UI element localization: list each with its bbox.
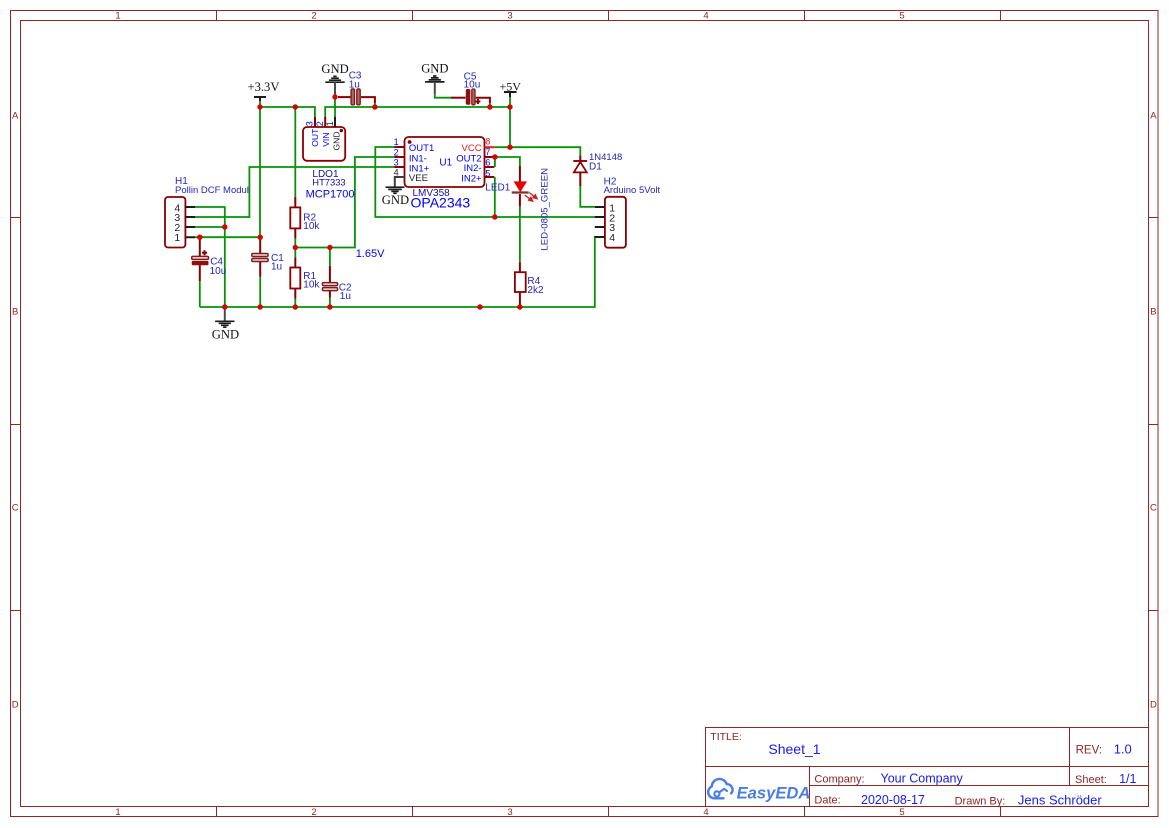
svg-text:2k2: 2k2 bbox=[527, 285, 544, 296]
svg-text:4: 4 bbox=[609, 232, 615, 244]
capacitor C4 (polarized) bbox=[192, 237, 209, 281]
ground symbol GND4 bottom bbox=[212, 307, 239, 342]
connector H2 body bbox=[605, 197, 626, 248]
svg-text:GND: GND bbox=[212, 328, 239, 342]
svg-text:2: 2 bbox=[311, 807, 316, 818]
svg-text:GND: GND bbox=[382, 193, 409, 207]
ruler labels bottom bbox=[115, 807, 904, 818]
svg-text:10k: 10k bbox=[303, 279, 320, 290]
wire H1 pin1 horizontal bbox=[195, 236, 260, 238]
U1 pin 6 stub bbox=[485, 166, 495, 168]
LED1 arrows bbox=[525, 193, 537, 202]
wire GND2 elbow to C5 bbox=[435, 94, 451, 97]
svg-text:Sheet:: Sheet: bbox=[1075, 774, 1107, 786]
wire 1.65V node over and up to U1 IN1- bbox=[295, 157, 394, 248]
svg-text:Drawn By:: Drawn By: bbox=[955, 795, 1006, 807]
svg-text:+3.3V: +3.3V bbox=[248, 80, 280, 94]
svg-text:1.65V: 1.65V bbox=[356, 248, 385, 260]
wire GND1 to LDO pin1 bbox=[334, 95, 336, 117]
wire H1 pin3 up and over to U1 IN1+ bbox=[195, 167, 395, 217]
resistor R2 bbox=[290, 197, 300, 239]
svg-text:HT7333: HT7333 bbox=[312, 176, 345, 187]
H1 pin stubs 4,3,2,1 bbox=[185, 207, 195, 237]
wire net 3V3 down to H1 pin1 line bbox=[259, 101, 261, 237]
LDO1 pin 1 stub bbox=[334, 117, 336, 127]
svg-text:5: 5 bbox=[899, 11, 904, 22]
svg-text:Pollin DCF Modul: Pollin DCF Modul bbox=[175, 185, 249, 196]
svg-text:1u: 1u bbox=[271, 262, 282, 273]
wire H1 pin4 to ground rail bbox=[195, 207, 225, 307]
svg-text:3: 3 bbox=[305, 121, 315, 126]
svg-text:1: 1 bbox=[394, 137, 399, 147]
svg-text:IN2+: IN2+ bbox=[461, 174, 482, 185]
svg-text:TITLE:: TITLE: bbox=[710, 731, 742, 743]
wire D1 to H2 pin1 bbox=[580, 186, 595, 207]
svg-text:C: C bbox=[12, 502, 19, 513]
svg-text:EasyEDA: EasyEDA bbox=[737, 783, 811, 802]
power flag +3.3V bbox=[248, 80, 280, 101]
svg-text:A: A bbox=[1150, 110, 1157, 121]
ground rail bottom bbox=[200, 237, 605, 307]
svg-text:1: 1 bbox=[325, 121, 335, 126]
svg-text:Your Company: Your Company bbox=[881, 772, 964, 786]
U1 pin 7 stub bbox=[485, 156, 495, 158]
svg-text:LED1: LED1 bbox=[485, 182, 510, 193]
voltage regulator LDO1 body bbox=[303, 127, 345, 161]
op-amp U1 body bbox=[405, 137, 485, 187]
ruler labels top bbox=[115, 11, 904, 22]
power flag +5V bbox=[500, 80, 522, 97]
svg-text:2020-08-17: 2020-08-17 bbox=[861, 793, 925, 807]
wire R2 to 1.65V node bbox=[294, 238, 296, 247]
capacitor C2 bbox=[322, 248, 337, 308]
connector H1 body bbox=[165, 197, 185, 248]
wire H1 pin2 stub join bbox=[195, 226, 225, 228]
svg-text:A: A bbox=[12, 110, 19, 121]
wire C4 to ground rail bbox=[199, 281, 201, 307]
svg-text:1.0: 1.0 bbox=[1114, 742, 1132, 757]
svg-text:1u: 1u bbox=[340, 291, 351, 302]
wire +5V stem down to U1 pin8 rail bbox=[509, 97, 511, 147]
svg-text:VIN: VIN bbox=[321, 132, 331, 146]
svg-text:2: 2 bbox=[311, 11, 316, 22]
LDO1 pin 3 stub bbox=[314, 117, 316, 127]
ruler labels left bbox=[12, 110, 19, 710]
svg-text:7: 7 bbox=[485, 147, 490, 157]
title block outline bbox=[706, 728, 1149, 807]
svg-text:1u: 1u bbox=[349, 80, 360, 91]
svg-text:B: B bbox=[12, 307, 18, 318]
svg-text:10u: 10u bbox=[464, 80, 481, 91]
svg-text:Company:: Company: bbox=[814, 773, 864, 785]
svg-text:REV:: REV: bbox=[1076, 744, 1102, 756]
svg-text:+5V: +5V bbox=[500, 80, 522, 94]
wire R2 feed from 3V3 rail bbox=[294, 107, 296, 197]
svg-text:3: 3 bbox=[394, 157, 399, 167]
ground symbol GND3 at VEE bbox=[382, 187, 409, 207]
svg-text:U1: U1 bbox=[439, 157, 452, 168]
svg-text:4: 4 bbox=[703, 11, 708, 22]
U1 pin 1 stub bbox=[395, 146, 405, 148]
wire IN2+ down to output rail bbox=[494, 177, 496, 217]
U1 pin 3 stub bbox=[395, 166, 405, 168]
wire net 3V3 rail to LDO pin3 bbox=[260, 107, 315, 117]
ruler ticks right bbox=[1149, 218, 1159, 611]
wire U1 pin8 rail to D1 bbox=[495, 147, 581, 155]
capacitor C3 bbox=[338, 89, 375, 105]
svg-text:OUT: OUT bbox=[310, 128, 320, 147]
ruler ticks bottom bbox=[217, 807, 1001, 817]
EasyEDA logo cloud icon bbox=[708, 779, 732, 798]
ruler labels right bbox=[1150, 110, 1157, 710]
svg-text:D: D bbox=[1150, 699, 1157, 710]
wire OUT1 loop to output rail to H2 pin2 bbox=[375, 147, 595, 217]
U1 pin 8 stub (VCC) bbox=[485, 146, 495, 148]
LDO1 pin 2 stub bbox=[324, 117, 326, 127]
svg-text:Arduino 5Volt: Arduino 5Volt bbox=[604, 185, 661, 196]
svg-text:10k: 10k bbox=[303, 221, 320, 232]
wire C5 right to 5V rail bbox=[489, 103, 491, 107]
diode D1 bbox=[573, 155, 587, 186]
ruler ticks top bbox=[217, 11, 1001, 21]
svg-text:1: 1 bbox=[115, 11, 120, 22]
svg-text:MCP1700: MCP1700 bbox=[306, 188, 355, 200]
U1 pin 4 stub and VEE ground elbow bbox=[395, 177, 405, 187]
ground symbol GND1 top left bbox=[321, 62, 348, 95]
svg-text:4: 4 bbox=[703, 807, 708, 818]
capacitor C5 (polarized) bbox=[451, 89, 490, 105]
svg-text:1: 1 bbox=[115, 807, 120, 818]
svg-text:B: B bbox=[1150, 307, 1156, 318]
svg-text:VEE: VEE bbox=[409, 173, 428, 184]
U1 pin 2 stub bbox=[395, 156, 405, 158]
wire OUT2 to LED bbox=[495, 157, 520, 166]
svg-text:IN2-: IN2- bbox=[464, 163, 482, 174]
svg-text:Sheet_1: Sheet_1 bbox=[768, 741, 820, 757]
wire OUT2 to IN2- feedback bbox=[494, 157, 496, 167]
svg-text:1/1: 1/1 bbox=[1119, 772, 1136, 786]
capacitor C1 bbox=[252, 238, 268, 277]
svg-text:3: 3 bbox=[507, 807, 512, 818]
H2 pin stubs bbox=[595, 207, 605, 237]
svg-text:3: 3 bbox=[507, 11, 512, 22]
svg-text:D1: D1 bbox=[589, 162, 602, 173]
svg-text:OPA2343: OPA2343 bbox=[411, 194, 471, 210]
U1 pin 5 stub bbox=[485, 176, 495, 178]
LED LED1 bbox=[512, 166, 529, 207]
svg-text:Date:: Date: bbox=[814, 795, 840, 807]
wire LED to R4 bbox=[519, 207, 521, 262]
svg-text:LED-0805_GREEN: LED-0805_GREEN bbox=[540, 168, 551, 251]
junction dots bbox=[197, 94, 523, 309]
svg-text:GND: GND bbox=[331, 131, 341, 150]
svg-text:Jens Schröder: Jens Schröder bbox=[1018, 792, 1102, 807]
svg-text:5: 5 bbox=[899, 807, 904, 818]
svg-text:D: D bbox=[12, 699, 19, 710]
resistor R4 bbox=[515, 262, 526, 306]
wire net 5V: LDO pin2 elbow and rail to +5V bbox=[325, 107, 510, 117]
wire C3 right to 5V rail bbox=[374, 103, 376, 107]
svg-text:C: C bbox=[1150, 502, 1157, 513]
svg-text:1: 1 bbox=[174, 232, 180, 244]
wire C1 to ground rail bbox=[259, 277, 261, 308]
svg-text:4: 4 bbox=[394, 168, 399, 178]
ruler ticks left bbox=[11, 218, 21, 611]
svg-text:2: 2 bbox=[315, 121, 325, 126]
svg-text:GND: GND bbox=[421, 62, 448, 76]
svg-text:10u: 10u bbox=[210, 266, 227, 277]
ground symbol GND2 bbox=[421, 62, 448, 95]
svg-text:GND: GND bbox=[321, 62, 348, 76]
resistor R1 bbox=[290, 248, 300, 308]
svg-text:2: 2 bbox=[394, 147, 399, 157]
svg-text:8: 8 bbox=[485, 137, 490, 147]
